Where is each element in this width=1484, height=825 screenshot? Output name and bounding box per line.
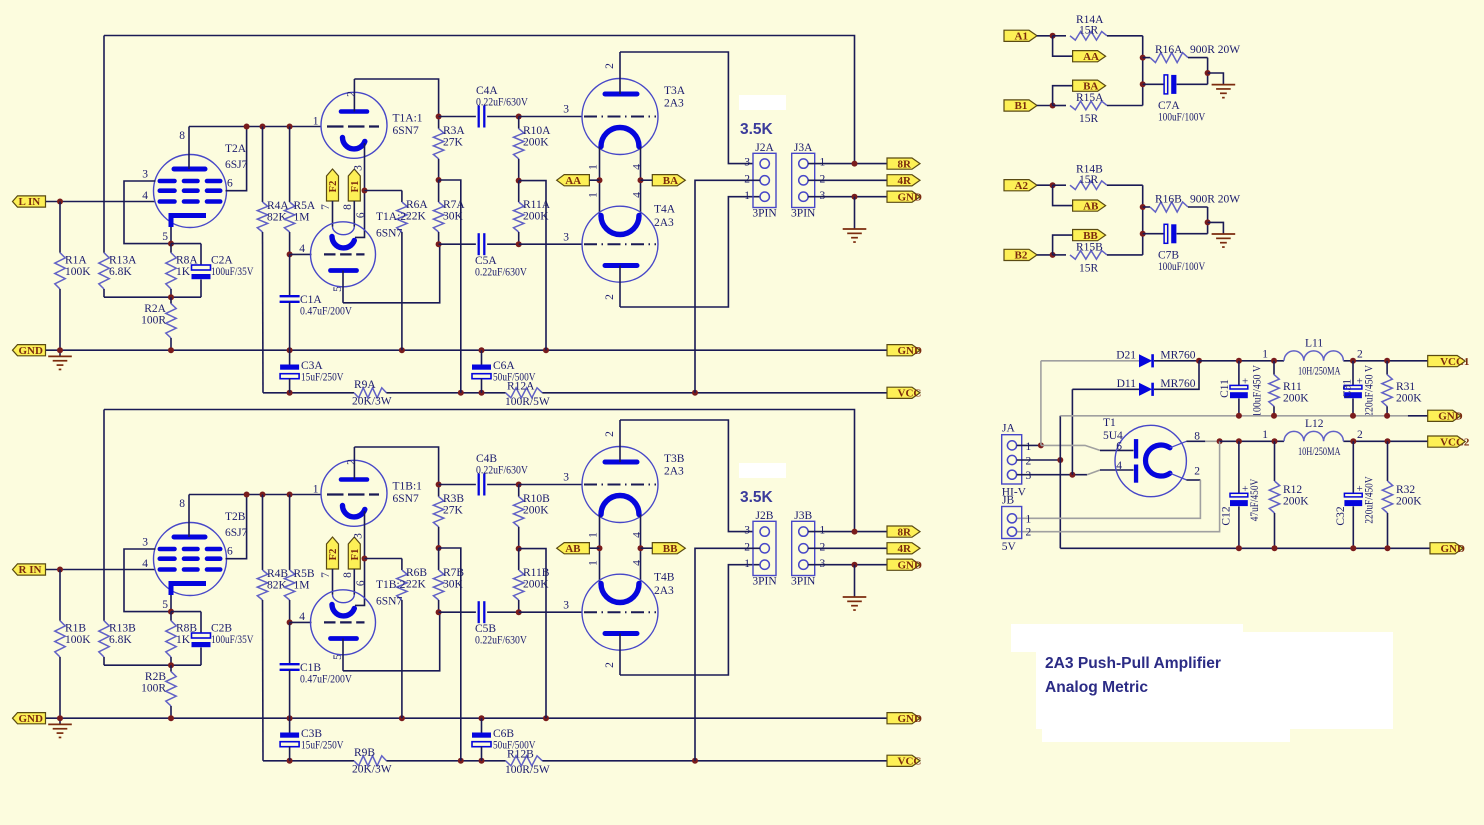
svg-text:0.47uF/200V: 0.47uF/200V [300, 306, 353, 318]
ground symbol left B [59, 718, 61, 724]
tube T1 5U4 [1115, 425, 1186, 496]
svg-text:R2A: R2A [144, 303, 166, 315]
svg-text:BA: BA [663, 175, 678, 187]
junction AA tap [597, 177, 603, 183]
wire B2 in [1037, 254, 1053, 256]
net tag VCC right A [887, 387, 920, 398]
svg-text:R9B: R9B [354, 747, 375, 759]
junction C7B right [1205, 219, 1211, 225]
wire J3B pin3 to GND [808, 564, 887, 566]
junction C5B left [436, 609, 442, 615]
junction GND/C6B [479, 715, 485, 721]
junction VCC/C3B [287, 758, 293, 764]
wire join vertical [1142, 36, 1144, 106]
net tag GND right A [887, 345, 920, 356]
svg-text:C5A: C5A [475, 255, 497, 267]
svg-text:GND: GND [1438, 411, 1463, 423]
junction GND/bias [543, 715, 549, 721]
svg-text:C2A: C2A [211, 255, 233, 267]
svg-text:6SN7: 6SN7 [393, 125, 419, 137]
svg-text:900R 20W: 900R 20W [1190, 44, 1240, 56]
svg-text:B2: B2 [1015, 250, 1028, 262]
wire to R6A [365, 190, 402, 192]
svg-text:3: 3 [1026, 470, 1032, 482]
wire VCC1 rail right [1343, 360, 1427, 362]
svg-text:4: 4 [142, 558, 148, 570]
white patch title 2 [1036, 632, 1393, 729]
svg-text:6: 6 [227, 178, 233, 190]
net tag BB [1073, 230, 1106, 241]
capacitor C1A 0.47uF/200V [289, 254, 291, 296]
svg-text:0.47uF/200V: 0.47uF/200V [300, 674, 353, 686]
wire J2A pin2 to VCC [695, 180, 760, 392]
wire T2B pin6 up [226, 495, 247, 559]
svg-text:82K: 82K [267, 212, 288, 224]
resistor R13B 6.8K [99, 621, 109, 657]
junction C4A left [436, 114, 442, 120]
capacitor C11 100uF/450V [1238, 361, 1240, 386]
net tag GND psu1 [1428, 410, 1461, 421]
svg-text:200K: 200K [523, 505, 549, 517]
net tag F1 [348, 169, 360, 201]
svg-text:1: 1 [1026, 441, 1032, 453]
svg-text:C3A: C3A [301, 360, 323, 372]
junction R11A bottom [516, 241, 522, 247]
wire join vertical [1142, 185, 1144, 255]
junction cathodes [362, 188, 368, 194]
junction GND/R1B [57, 715, 63, 721]
svg-text:1: 1 [820, 157, 826, 169]
svg-text:2: 2 [346, 91, 358, 97]
wire B+ drop [439, 180, 461, 393]
svg-text:15R: 15R [1079, 174, 1099, 186]
svg-text:T2B: T2B [225, 511, 246, 523]
junction R32 bot [1385, 545, 1391, 551]
junction R3B/R7B [436, 545, 442, 551]
junction R11B bottom [516, 609, 522, 615]
junction C31 top [1350, 358, 1356, 364]
svg-text:R3B: R3B [443, 493, 464, 505]
svg-text:0.22uF/630V: 0.22uF/630V [476, 465, 529, 477]
net tag AA [557, 175, 590, 186]
wire VCC rail mid B [386, 760, 505, 762]
junction VCC/C6A [479, 390, 485, 396]
white patch title 3 [1042, 712, 1290, 742]
svg-text:100R/5W: 100R/5W [505, 396, 550, 408]
wire cathode bottom loop [104, 296, 201, 298]
junction rectifier out [1196, 358, 1202, 364]
svg-text:R6A: R6A [406, 199, 428, 211]
wire input to T2A pin4 [46, 201, 155, 203]
junction R31 bot [1384, 413, 1390, 419]
svg-text:6.8K: 6.8K [109, 266, 132, 278]
capacitor C31 220uF/450V [1352, 361, 1354, 386]
svg-text:100uF/35V: 100uF/35V [211, 634, 254, 646]
tube T4A 2A3 [582, 206, 658, 307]
junction R11 bot [1271, 413, 1277, 419]
wire A1 in [1037, 35, 1053, 37]
svg-text:2A3: 2A3 [664, 98, 684, 110]
wire J3B pin1 to 8R [808, 531, 887, 533]
svg-text:1: 1 [1262, 349, 1268, 361]
junction R12 bot [1272, 545, 1278, 551]
svg-text:2: 2 [604, 63, 616, 69]
svg-text:20K/3W: 20K/3W [352, 764, 392, 776]
capacitor C4A 0.22uF/630V [439, 116, 476, 118]
svg-text:GND: GND [898, 713, 923, 725]
capacitor C5B 0.22uF/630V [439, 611, 476, 613]
svg-text:0.22uF/630V: 0.22uF/630V [476, 97, 529, 109]
connector J3A 3PIN [792, 153, 815, 207]
wire left vertical A [103, 36, 105, 253]
net tag VCC2 [1428, 436, 1466, 447]
svg-text:R13B: R13B [109, 623, 136, 635]
junction R12 top [1272, 438, 1278, 444]
junction GND/C6A [479, 347, 485, 353]
connector J2A 3PIN [753, 153, 776, 207]
wire D21 cathode [1154, 360, 1199, 362]
svg-text:VCC2: VCC2 [1440, 436, 1470, 448]
svg-text:D21: D21 [1116, 350, 1136, 362]
svg-text:R3A: R3A [443, 125, 465, 137]
wire T1B:1 plate up [354, 447, 438, 485]
junction JA pin1 [1038, 442, 1044, 448]
svg-text:6: 6 [1116, 441, 1122, 453]
wire to BB tag [1053, 235, 1073, 255]
svg-text:GND: GND [898, 559, 923, 571]
resistor R12 200K [1274, 441, 1276, 481]
svg-text:2: 2 [820, 541, 826, 553]
wire GND1 rail gray [1060, 415, 1408, 417]
svg-text:6: 6 [355, 580, 367, 586]
wire filament left [599, 147, 601, 216]
tube T1A:2 6SN7 [311, 222, 376, 303]
svg-text:C1B: C1B [300, 662, 321, 674]
wire pin8 gray [1205, 440, 1219, 442]
resistor R1A 100K [59, 202, 61, 253]
capacitor C7B 100uF/100V [1143, 222, 1208, 243]
svg-text:4R: 4R [898, 543, 913, 555]
svg-text:C11: C11 [1219, 379, 1231, 398]
junction BA tap [638, 545, 644, 551]
wire T1 pin2 to JB1 [1017, 480, 1201, 518]
connector J2B 3PIN [753, 521, 776, 575]
wire to T1B:2 pin4 [290, 621, 312, 623]
svg-text:2: 2 [820, 173, 826, 185]
wire J3A pin3 to GND [808, 196, 887, 198]
svg-text:3.5K: 3.5K [740, 121, 774, 138]
junction cathode node [168, 241, 174, 247]
wire VCC rail left B [263, 760, 354, 762]
resistor R16B 900R 20W [1143, 206, 1150, 208]
svg-text:8: 8 [179, 498, 185, 510]
svg-text:C1A: C1A [300, 294, 322, 306]
wire T3B plate to J2B [620, 420, 753, 532]
svg-text:C4A: C4A [476, 85, 498, 97]
wire JA pin3 [1017, 474, 1087, 476]
tube T3B 2A3 [582, 420, 658, 523]
svg-text:R10B: R10B [523, 493, 550, 505]
svg-text:C3B: C3B [301, 728, 322, 740]
svg-text:AB: AB [565, 543, 581, 555]
svg-text:2: 2 [346, 459, 358, 465]
ground symbol C7B [1208, 222, 1224, 234]
svg-text:82K: 82K [267, 580, 288, 592]
svg-text:1: 1 [820, 525, 826, 537]
junction JA pin3 [1069, 472, 1075, 478]
net tag VCC1 [1428, 356, 1466, 367]
wire VCC rail right A [542, 392, 887, 394]
wire T1B:2 plate [343, 612, 440, 671]
wire F2 heater [332, 569, 334, 595]
wire filament right [640, 147, 642, 216]
resistor R7B 30K [438, 548, 440, 570]
svg-text:6: 6 [355, 212, 367, 218]
svg-text:1M: 1M [294, 580, 310, 592]
svg-text:100R: 100R [141, 683, 166, 695]
svg-text:15R: 15R [1079, 25, 1099, 37]
svg-text:2A3: 2A3 [664, 466, 684, 478]
svg-text:2: 2 [604, 662, 616, 668]
svg-text:T3B: T3B [664, 453, 685, 465]
svg-text:2: 2 [1026, 455, 1032, 467]
net tag GND right B [887, 713, 920, 724]
svg-text:4: 4 [299, 611, 305, 623]
wire JA pin1 [1017, 444, 1041, 446]
net tag L IN [13, 196, 46, 207]
svg-text:R16B: R16B [1155, 193, 1182, 205]
svg-text:R7A: R7A [443, 199, 465, 211]
net tag AB [557, 543, 590, 554]
svg-text:VCC1: VCC1 [1440, 356, 1469, 368]
net tag 8R A [887, 158, 920, 169]
junction AA tap [597, 545, 603, 551]
svg-text:3: 3 [353, 165, 365, 171]
junction GND/C1B [287, 715, 293, 721]
wire T2A grid3 to cathode [124, 181, 171, 244]
net tag VCC right B [887, 755, 920, 766]
svg-text:7: 7 [320, 204, 332, 210]
net tag GND psu2 [1430, 543, 1463, 554]
junction R5B top [287, 492, 293, 498]
svg-text:15uF/250V: 15uF/250V [301, 372, 344, 384]
white patch above 3.5K [739, 463, 786, 478]
svg-text:10H/250MA: 10H/250MA [1298, 366, 1341, 378]
net tag BA [1073, 80, 1106, 91]
svg-text:R IN: R IN [19, 564, 42, 576]
junction B1 [1050, 103, 1056, 109]
svg-text:C12: C12 [1221, 506, 1233, 525]
svg-text:1K: 1K [176, 266, 191, 278]
wire J3A pin2 to 4R [808, 179, 887, 181]
junction output gnd [852, 194, 858, 200]
junction C11 bot [1236, 413, 1242, 419]
wire T4B plate to J2B [620, 565, 760, 675]
junction B2 [1050, 252, 1056, 258]
svg-text:5V: 5V [1002, 541, 1017, 553]
resistor R12B 100R/5W [506, 756, 543, 766]
resistor R4B 82K [262, 495, 264, 571]
resistor R9A 20K/3W [354, 388, 386, 398]
resistor R5A 1M [289, 127, 291, 203]
net tag 4R A [887, 175, 920, 186]
junction pin6 row [244, 124, 250, 130]
svg-text:R12: R12 [1283, 484, 1302, 496]
wire T2A plate row [189, 126, 322, 128]
resistor R4A 82K [262, 127, 264, 203]
wire to T4B grid [519, 611, 583, 613]
svg-text:6SN7: 6SN7 [376, 596, 402, 608]
wire JA pin2 [1017, 459, 1061, 461]
svg-text:L IN: L IN [19, 196, 41, 208]
junction JA pin2 [1057, 457, 1063, 463]
svg-text:T1: T1 [1103, 417, 1116, 429]
net tag F2 [327, 169, 339, 201]
resistor R1B 100K [59, 570, 61, 621]
wire VCC2 rail [1220, 440, 1284, 442]
capacitor C6A 50uF/500V [481, 350, 483, 364]
svg-text:MR760: MR760 [1160, 350, 1195, 362]
svg-text:6SN7: 6SN7 [376, 228, 402, 240]
junction R3A/R7A [436, 177, 442, 183]
junction R10A/R11A [516, 178, 522, 184]
wire cathode coupling [355, 143, 365, 237]
junction C4B left [436, 482, 442, 488]
capacitor C32 220uF/450V [1352, 441, 1354, 493]
wire JA1 to T1 pin6 [1041, 445, 1100, 450]
svg-text:A2: A2 [1015, 180, 1029, 192]
tube T1A:1 6SN7 [321, 79, 387, 158]
svg-text:1: 1 [744, 558, 750, 570]
junction BA tap [638, 177, 644, 183]
svg-text:3: 3 [563, 600, 569, 612]
wire D11 cathode [1154, 361, 1199, 390]
wire T1A:2 plate [343, 244, 440, 303]
svg-text:22K: 22K [406, 579, 427, 591]
svg-text:GND: GND [1441, 543, 1466, 555]
net tag B1 [1004, 100, 1037, 111]
tube T3A 2A3 [582, 52, 658, 155]
diode D21 MR760 [1139, 354, 1152, 367]
svg-text:0.22uF/630V: 0.22uF/630V [475, 635, 528, 647]
svg-text:T1A:2: T1A:2 [376, 211, 406, 223]
svg-text:R5A: R5A [294, 200, 316, 212]
net tag AA [1073, 51, 1106, 62]
junction C31 bot [1350, 413, 1356, 419]
svg-text:100K: 100K [65, 634, 91, 646]
junction input/R1B [57, 567, 63, 573]
svg-text:C6A: C6A [493, 360, 515, 372]
junction R11 top [1271, 358, 1277, 364]
svg-text:C4B: C4B [476, 453, 497, 465]
svg-text:100uF/35V: 100uF/35V [211, 266, 254, 278]
junction VCC feed [458, 390, 464, 396]
svg-text:F2: F2 [328, 181, 339, 193]
svg-text:GND: GND [19, 345, 44, 357]
svg-text:6SJ7: 6SJ7 [225, 159, 248, 171]
svg-text:1K: 1K [176, 634, 191, 646]
wire into T1 pin6 [1100, 449, 1134, 451]
white patch above 3.5K [739, 95, 786, 110]
ground symbol output B [854, 565, 856, 597]
inductor L12 10H/250MA [1284, 431, 1343, 441]
wire VCC rail mid A [386, 392, 505, 394]
junction C11 top [1236, 358, 1242, 364]
wire bias to gnd [519, 181, 546, 351]
svg-text:+: + [1242, 375, 1248, 387]
svg-text:3: 3 [353, 533, 365, 539]
wire to T3A grid [519, 116, 583, 118]
svg-text:2: 2 [604, 431, 616, 437]
svg-text:D11: D11 [1117, 378, 1137, 390]
svg-text:4R: 4R [898, 175, 913, 187]
diode D11 MR760 [1139, 383, 1152, 396]
capacitor C3B 15uF/250V [289, 718, 291, 732]
svg-text:AA: AA [1083, 51, 1099, 63]
wire T1 pin8 [1186, 440, 1205, 442]
wire T4A plate to J2A [620, 197, 760, 307]
wire T1 pin2 [1186, 479, 1200, 481]
svg-text:VCC: VCC [898, 388, 922, 400]
junction C32 bot [1350, 545, 1356, 551]
svg-text:AA: AA [565, 175, 581, 187]
junction C5A left [436, 241, 442, 247]
wire BB tap [641, 547, 653, 549]
svg-text:3: 3 [820, 190, 826, 202]
wire to T1A:2 pin4 [290, 253, 312, 255]
svg-text:7: 7 [320, 572, 332, 578]
junction 8R [852, 161, 858, 167]
svg-text:22K: 22K [406, 211, 427, 223]
junction GND/R2B [168, 715, 174, 721]
wire bias to gnd [519, 549, 546, 719]
svg-text:4: 4 [142, 190, 148, 202]
net tag F2 [327, 537, 339, 569]
svg-text:R15A: R15A [1076, 92, 1104, 104]
wire JA3 to T1 pin4 [1087, 470, 1100, 475]
svg-text:100R: 100R [141, 315, 166, 327]
svg-text:10H/250MA: 10H/250MA [1298, 446, 1341, 458]
junction C7A left [1140, 81, 1146, 87]
net tag BB [652, 543, 685, 554]
tube T1B:2 6SN7 [311, 590, 376, 671]
svg-text:+: + [1357, 375, 1363, 387]
svg-text:BB: BB [663, 543, 678, 555]
junction pin8/JB2 [1217, 438, 1223, 444]
wire VCC1 rail [1199, 360, 1284, 362]
net tag 4R B [887, 543, 920, 554]
junction A1 [1050, 33, 1056, 39]
svg-text:4: 4 [632, 192, 644, 198]
wire gnd vertical [1059, 416, 1061, 549]
svg-text:VCC: VCC [898, 756, 922, 768]
svg-text:J3B: J3B [794, 510, 812, 522]
net tag A2 [1004, 180, 1037, 191]
svg-text:F1: F1 [350, 181, 361, 193]
svg-text:2: 2 [1194, 466, 1200, 478]
svg-text:2A3: 2A3 [654, 585, 674, 597]
capacitor C1B 0.47uF/200V [289, 622, 291, 664]
svg-text:6SJ7: 6SJ7 [225, 527, 248, 539]
junction grid T1A:2 [287, 251, 293, 257]
wire input to T2B pin4 [46, 569, 155, 571]
svg-text:R2B: R2B [145, 671, 166, 683]
ground symbol left A [59, 350, 61, 356]
resistor R2B 100R [170, 665, 172, 671]
resistor R2A 100R [170, 297, 172, 303]
svg-text:15uF/250V: 15uF/250V [301, 740, 344, 752]
svg-text:100uF/450 V: 100uF/450 V [1252, 364, 1264, 417]
